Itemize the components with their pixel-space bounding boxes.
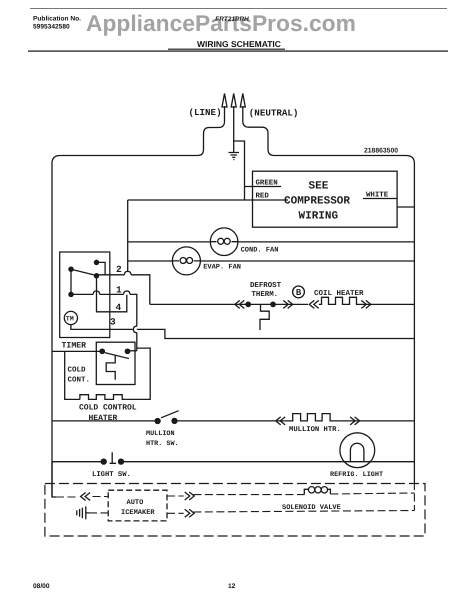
- connector chevrons icemaker out top: [185, 492, 195, 500]
- connector bump timer terminal 2: [124, 271, 131, 274]
- svg-text:5995342580: 5995342580: [33, 24, 70, 31]
- wire green branch to compressor: [234, 141, 253, 200]
- connector chevrons coil heater right: [361, 300, 371, 308]
- cold control contact right: [125, 349, 129, 353]
- svg-text:HTR. SW.: HTR. SW.: [146, 440, 179, 448]
- plug prong NEUTRAL: [240, 94, 245, 108]
- heater cold control element: [80, 395, 127, 400]
- defrost thermostat contact left: [246, 302, 250, 306]
- timer motor TM: [64, 311, 77, 324]
- svg-text:08/00: 08/00: [33, 583, 50, 590]
- connector chevrons icemaker feed: [81, 493, 91, 501]
- svg-text:THERM.: THERM.: [252, 291, 279, 299]
- svg-text:COND. FAN: COND. FAN: [241, 247, 279, 255]
- wire red to compressor: [128, 199, 288, 201]
- svg-text:WHITE: WHITE: [366, 192, 389, 200]
- header top rule: [30, 8, 447, 9]
- wire NEUTRAL prong drop: [243, 106, 274, 156]
- schematic text labels: [62, 107, 399, 517]
- svg-text:DEFROST: DEFROST: [250, 282, 282, 290]
- svg-text:4: 4: [116, 302, 122, 313]
- connector chevrons defrost right: [283, 300, 293, 308]
- svg-text:GREEN: GREEN: [256, 180, 278, 188]
- compressor box: [253, 171, 398, 227]
- defrost thermostat arm: [248, 303, 273, 305]
- connector chevrons icemaker out bottom: [185, 509, 195, 517]
- svg-text:MULLION: MULLION: [146, 430, 175, 438]
- timer contact arm pivot: [69, 267, 73, 271]
- svg-text:LIGHT SW.: LIGHT SW.: [92, 471, 131, 479]
- svg-text:(LINE): (LINE): [189, 107, 222, 118]
- svg-text:RED: RED: [256, 193, 270, 201]
- lamp refrigerator light: [340, 433, 375, 468]
- svg-text:TIMER: TIMER: [62, 342, 87, 351]
- mullion switch contact right: [172, 418, 177, 423]
- wire mullion heater to right rail: [339, 420, 414, 422]
- right rail: [413, 164, 415, 483]
- timer box: [60, 252, 110, 338]
- mullion switch arm: [161, 411, 179, 418]
- svg-text:COLD CONTROL: COLD CONTROL: [79, 404, 137, 413]
- mullion switch contact left: [155, 419, 160, 424]
- svg-text:SOLENOID VALVE: SOLENOID VALVE: [282, 504, 341, 512]
- relay coil B circle: [293, 286, 305, 298]
- light switch contact right: [119, 459, 124, 464]
- svg-text:WIRING: WIRING: [299, 211, 339, 223]
- box auto icemaker dashed: [108, 490, 167, 521]
- green label underline: [253, 186, 282, 188]
- dashed icemaker outer box: [45, 484, 425, 537]
- svg-text:MULLION HTR.: MULLION HTR.: [289, 426, 341, 434]
- left rail: [52, 156, 60, 498]
- wire timer fixed contact: [97, 262, 106, 274]
- wire timer terminal 1: [71, 294, 137, 326]
- top edge left segment: [60, 155, 198, 157]
- timer contact top: [94, 260, 98, 264]
- svg-text:AppliancePartsPros.com: AppliancePartsPros.com: [86, 10, 356, 36]
- dashed wire icemaker out top: [167, 495, 184, 497]
- svg-text:B: B: [296, 288, 302, 298]
- wire cold control heater right branch: [127, 348, 150, 399]
- svg-text:(NEUTRAL): (NEUTRAL): [249, 108, 299, 119]
- wire timer terminal 4 jumper: [97, 276, 127, 312]
- svg-text:COLD: COLD: [68, 366, 87, 375]
- dashed wire chevron stub: [56, 496, 79, 498]
- wire mullion switch row: [52, 420, 285, 422]
- wire timer terminal 2: [97, 275, 150, 305]
- dashed wire chevron to icemaker box: [93, 496, 109, 498]
- cold control box: [96, 342, 135, 384]
- wire left rail lower: [52, 462, 56, 497]
- wire cold control heater left branch: [65, 352, 80, 400]
- timer contact 2: [94, 274, 98, 278]
- timer switch arm: [71, 269, 97, 275]
- wire cold control rung: [52, 350, 102, 352]
- solenoid valve coil: [304, 489, 308, 494]
- heater mullion element: [285, 414, 340, 421]
- svg-text:AUTO: AUTO: [127, 499, 144, 507]
- svg-text:2: 2: [116, 264, 122, 275]
- light switch plunger: [110, 452, 117, 463]
- svg-text:COIL HEATER: COIL HEATER: [314, 289, 364, 298]
- svg-text:12: 12: [228, 583, 236, 590]
- svg-text:REFRIG. LIGHT: REFRIG. LIGHT: [330, 471, 383, 479]
- dashed wire icemaker out bottom: [167, 511, 414, 514]
- svg-text:HEATER: HEATER: [89, 414, 118, 423]
- svg-text:COMPRESSOR: COMPRESSOR: [284, 196, 350, 208]
- connector chevrons defrost left: [235, 300, 245, 308]
- plug prong LINE: [222, 94, 227, 108]
- svg-text:WIRING SCHEMATIC: WIRING SCHEMATIC: [197, 39, 281, 49]
- hop bump on terminal 1 wire: [93, 291, 100, 294]
- wire feed to cold control right contact: [128, 350, 137, 352]
- wire light switch row: [52, 461, 414, 463]
- wire defrost row: [150, 303, 246, 305]
- svg-text:1: 1: [116, 285, 122, 296]
- defrost thermostat contact right: [271, 302, 275, 306]
- wire timer motor to terminal 3: [71, 325, 134, 330]
- dashed right rail lower: [413, 482, 415, 511]
- motor cond fan: [210, 228, 238, 256]
- wire timer pivot to contact 1: [70, 269, 72, 294]
- svg-text:3: 3: [110, 317, 116, 328]
- motor evap fan: [172, 247, 200, 275]
- svg-text:218863500: 218863500: [364, 148, 398, 155]
- top edge right segment: [274, 156, 414, 164]
- cold control contact left: [100, 349, 104, 353]
- light switch contact left: [101, 459, 106, 464]
- connector chevrons mullion left: [276, 417, 286, 425]
- wire white to right rail: [397, 206, 414, 208]
- connector chevrons mullion right: [350, 417, 360, 425]
- dashed wire solenoid row: [193, 493, 414, 495]
- wire red drop feed: [127, 200, 129, 271]
- svg-text:FRT21PRH: FRT21PRH: [215, 16, 250, 23]
- wire terminal 3 to right rail: [137, 329, 415, 338]
- cold control switch arm: [105, 353, 129, 359]
- icemaker ground symbol: [77, 506, 89, 519]
- dashed wire icemaker ground row: [89, 512, 108, 514]
- wire evap fan row: [128, 260, 415, 262]
- title full-width rule: [28, 50, 448, 51]
- defrost thermostat sensor element: [260, 304, 269, 330]
- timer contact 1: [69, 292, 73, 296]
- wire cond fan row: [128, 241, 415, 243]
- heater coil element: [319, 297, 360, 304]
- svg-text:CONT.: CONT.: [68, 376, 91, 385]
- connector bump terminal 1/4 join: [124, 291, 130, 294]
- white label underline: [363, 198, 397, 200]
- wire thermostat to chevrons: [275, 303, 308, 305]
- ground symbol: [229, 153, 240, 160]
- connector chevrons coil heater left: [309, 300, 319, 308]
- plug prong ground (middle): [231, 94, 236, 108]
- wire LINE prong drop: [198, 106, 225, 156]
- lamp filament: [350, 443, 364, 461]
- svg-text:EVAP. FAN: EVAP. FAN: [203, 263, 241, 271]
- cold control sensor element: [106, 355, 115, 379]
- svg-text:SEE: SEE: [309, 181, 329, 193]
- svg-text:ICEMAKER: ICEMAKER: [121, 509, 155, 517]
- wire coil heater to right rail: [360, 303, 414, 305]
- svg-text:TM: TM: [66, 316, 74, 323]
- svg-text:Publication No.: Publication No.: [33, 16, 81, 23]
- connector bump terminal 3: [133, 326, 136, 333]
